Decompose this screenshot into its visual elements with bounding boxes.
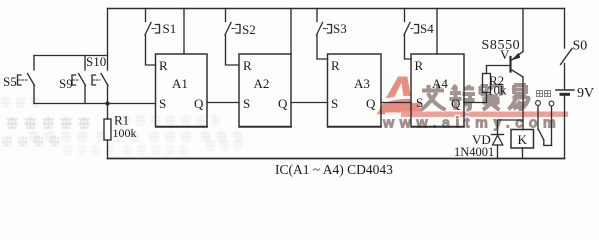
svg-text:Q: Q bbox=[194, 96, 204, 111]
svg-text:1N4001: 1N4001 bbox=[454, 145, 494, 159]
wire top rail to A4 top bbox=[436, 9, 438, 55]
svg-text:IC(A1 ~ A4) CD4043: IC(A1 ~ A4) CD4043 bbox=[275, 162, 393, 177]
svg-text:A3: A3 bbox=[354, 76, 370, 91]
svg-text:www.aitmy.com: www.aitmy.com bbox=[382, 116, 561, 132]
wire S2 to R of A2 bbox=[226, 35, 240, 65]
diode triangle bbox=[493, 135, 503, 145]
svg-text:V: V bbox=[500, 47, 510, 62]
wire S3 to R of A3 bbox=[317, 35, 328, 59]
svg-text:S: S bbox=[243, 96, 250, 111]
wire top rail bbox=[108, 8, 565, 10]
svg-text:Q: Q bbox=[451, 96, 461, 111]
switch S1 bbox=[145, 9, 147, 22]
svg-text:Q: Q bbox=[366, 96, 376, 111]
wire left vertical bbox=[107, 9, 109, 71]
switch S2 bbox=[225, 9, 227, 22]
svg-text:K: K bbox=[518, 132, 528, 147]
diode VD 1N4001 bbox=[497, 120, 499, 135]
switch S3 bbox=[316, 9, 318, 22]
terminal circle right bbox=[549, 101, 554, 106]
svg-text:S: S bbox=[159, 96, 166, 111]
svg-text:S3: S3 bbox=[333, 21, 347, 36]
svg-text:S1: S1 bbox=[163, 21, 177, 36]
svg-text:S4: S4 bbox=[420, 21, 434, 36]
wire Q1 to S2in bbox=[207, 102, 239, 104]
wire Q3 to S4in bbox=[381, 102, 411, 104]
svg-text:S: S bbox=[331, 96, 338, 111]
battery 9V bbox=[556, 89, 574, 91]
svg-text:R: R bbox=[159, 58, 168, 73]
svg-text:A4: A4 bbox=[432, 76, 448, 91]
junction node dot R1/S bbox=[105, 101, 109, 105]
svg-text:A2: A2 bbox=[254, 76, 270, 91]
svg-text:10k: 10k bbox=[487, 83, 507, 98]
flip-flop A2 bbox=[239, 54, 291, 127]
transistor V S8550 bbox=[509, 57, 511, 72]
svg-text:9V: 9V bbox=[577, 86, 594, 101]
svg-text:R: R bbox=[331, 58, 340, 73]
svg-text:Q: Q bbox=[278, 96, 288, 111]
flip-flop A1 bbox=[156, 54, 208, 127]
svg-text:R: R bbox=[243, 58, 252, 73]
svg-text:S2: S2 bbox=[242, 22, 256, 37]
watermark underline band bbox=[401, 112, 568, 117]
switch S0 bbox=[564, 9, 566, 49]
switch S5 bbox=[33, 56, 35, 71]
flip-flop A4 bbox=[411, 54, 464, 127]
svg-text:S5: S5 bbox=[3, 74, 17, 89]
wire switch sub-rail bbox=[34, 55, 108, 57]
svg-text:A1: A1 bbox=[172, 76, 188, 91]
svg-text:S: S bbox=[416, 95, 423, 110]
wire collector down bbox=[522, 77, 524, 130]
wire R2 to base bbox=[487, 66, 510, 74]
svg-text:100k: 100k bbox=[113, 126, 137, 140]
svg-text:S0: S0 bbox=[573, 39, 588, 54]
wire S4 to R of A4 bbox=[405, 35, 412, 59]
transistor emitter arrow bbox=[512, 53, 521, 61]
flip-flop A3 bbox=[328, 54, 382, 127]
terminal wires + relay contact bbox=[537, 106, 539, 130]
terminal circle left bbox=[536, 101, 541, 106]
resistor R1 bbox=[107, 104, 109, 120]
svg-text:R: R bbox=[415, 58, 424, 73]
watermark logo A bbox=[376, 64, 423, 126]
wire Q2 to S3in bbox=[291, 102, 328, 104]
wire collector junction to diode bbox=[498, 119, 524, 121]
wire S1 to R of A1 bbox=[146, 35, 156, 65]
wire top rail to A1 top bbox=[183, 9, 185, 55]
switch S4 bbox=[404, 9, 406, 22]
relay coil K bbox=[511, 130, 534, 149]
wire bottom rail bbox=[108, 158, 565, 160]
watermark small chars bbox=[537, 91, 551, 97]
switch S9 bbox=[84, 56, 86, 71]
wire S node to A1 S input bbox=[34, 103, 156, 105]
resistor R2 bbox=[483, 74, 491, 93]
svg-text:S10: S10 bbox=[86, 54, 106, 69]
switch S10 bbox=[101, 74, 108, 86]
wire Q4 to R2 bbox=[464, 93, 487, 103]
wire top rail to A2 top right corner bbox=[290, 9, 292, 55]
wire emitter to top rail bbox=[522, 9, 524, 52]
svg-text:S9: S9 bbox=[59, 76, 73, 91]
